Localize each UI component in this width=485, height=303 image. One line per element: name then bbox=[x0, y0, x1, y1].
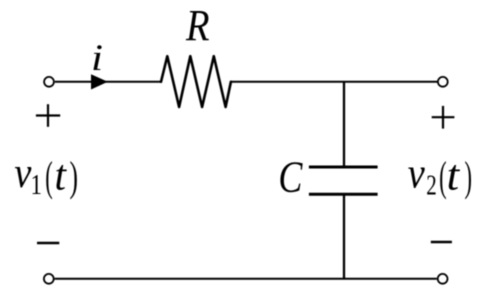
svg-text:): ) bbox=[70, 154, 79, 200]
svg-text:): ) bbox=[465, 154, 473, 200]
svg-text:(: ( bbox=[439, 154, 447, 200]
capacitor C top plate bbox=[309, 166, 378, 169]
capacitor C bottom plate bbox=[309, 193, 378, 196]
svg-text:i: i bbox=[91, 38, 103, 79]
svg-text:(: ( bbox=[45, 154, 53, 200]
svg-text:t: t bbox=[447, 152, 461, 199]
svg-text:v: v bbox=[408, 151, 426, 198]
svg-text:2: 2 bbox=[426, 169, 437, 201]
current arrow i bbox=[91, 74, 108, 89]
terminal TR (output +) bbox=[438, 77, 448, 87]
plus sign (output polarity) bbox=[432, 106, 455, 129]
terminal BR (output -) bbox=[438, 274, 448, 284]
svg-text:t: t bbox=[55, 152, 68, 199]
resistor R (zigzag) bbox=[161, 56, 231, 107]
node: capacitor branch top bbox=[343, 82, 345, 167]
plus sign (input polarity) bbox=[36, 104, 60, 127]
wire top-left: terminal to resistor bbox=[55, 81, 162, 83]
wire: capacitor branch bottom bbox=[343, 194, 345, 279]
svg-text:C: C bbox=[278, 152, 303, 201]
wire bottom rail bbox=[55, 278, 437, 280]
wire top-right: resistor to output terminal bbox=[231, 81, 437, 83]
terminal BL (input -) bbox=[44, 274, 54, 284]
minus sign (output polarity) bbox=[431, 241, 452, 244]
label v1(t) bbox=[14, 150, 78, 201]
svg-text:1: 1 bbox=[31, 169, 43, 201]
svg-text:R: R bbox=[185, 1, 209, 50]
minus sign (input polarity) bbox=[37, 242, 59, 245]
label v2(t) bbox=[408, 151, 472, 202]
terminal TL (input +) bbox=[44, 77, 54, 87]
